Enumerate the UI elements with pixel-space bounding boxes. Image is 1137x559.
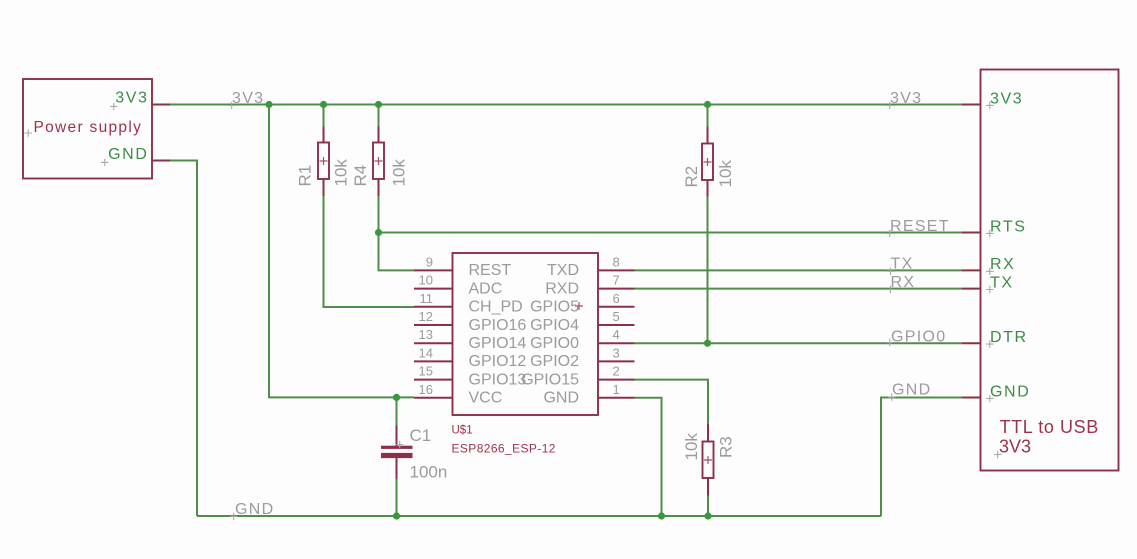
origin cross net RX — [887, 286, 894, 293]
origin cross TTL value — [994, 451, 1001, 458]
svg-text:REST: REST — [469, 262, 512, 279]
svg-text:GPIO0: GPIO0 — [891, 329, 946, 346]
svg-text:11: 11 — [420, 291, 434, 306]
svg-text:13: 13 — [419, 327, 433, 342]
wire TXD to RX — [635, 269, 963, 271]
power supply module SG1 box — [23, 79, 152, 179]
svg-text:GND: GND — [108, 146, 148, 163]
pin RTS of TTL — [962, 232, 981, 234]
resistor R2 — [707, 105, 709, 127]
origin cross net RESET — [886, 230, 893, 237]
origin cross net GND — [230, 513, 237, 520]
svg-text:RXD: RXD — [545, 280, 579, 297]
pin 8 TXD — [598, 269, 635, 271]
pin GND of TTL — [962, 397, 981, 399]
svg-text:DTR: DTR — [990, 329, 1028, 346]
svg-text:VCC: VCC — [469, 390, 503, 407]
wire RXD to TX — [635, 288, 963, 290]
wire GPIO0 to DTR — [635, 342, 963, 344]
svg-text:RX: RX — [990, 256, 1015, 273]
svg-text:GPIO4: GPIO4 — [530, 317, 579, 334]
svg-text:10k: 10k — [682, 433, 701, 461]
pin RX of TTL — [962, 269, 981, 271]
svg-text:3V3: 3V3 — [990, 90, 1023, 107]
pin 16 VCC — [414, 397, 453, 399]
pin 9 REST — [414, 269, 453, 271]
svg-text:3V3: 3V3 — [232, 90, 264, 107]
resistor R4 — [378, 105, 380, 127]
svg-text:TX: TX — [891, 256, 914, 273]
op IC U$1 ESP8266 box — [453, 253, 599, 415]
pin 3 GPIO2 — [598, 360, 635, 362]
svg-text:R2: R2 — [682, 166, 701, 188]
pin 3V3 of TTL — [962, 104, 981, 106]
svg-text:GPIO13: GPIO13 — [469, 371, 527, 388]
pin DTR of TTL — [962, 342, 981, 344]
svg-text:RX: RX — [891, 274, 916, 291]
svg-text:GND: GND — [543, 390, 579, 407]
pin 7 RXD — [598, 288, 635, 290]
wire VCC vertical — [269, 105, 414, 398]
svg-text:GPIO2: GPIO2 — [530, 353, 579, 370]
svg-text:GPIO5: GPIO5 — [530, 299, 579, 316]
TTL to USB module box — [981, 70, 1119, 471]
pin 5 GPIO4 — [598, 324, 635, 326]
origin cross C1 — [396, 441, 403, 448]
node junction GND/pin1 — [658, 512, 665, 519]
svg-text:10k: 10k — [716, 160, 735, 188]
pin 12 GPIO16 — [414, 324, 453, 326]
pin 11 CH_PD — [414, 306, 453, 308]
svg-text:U$1: U$1 — [452, 425, 473, 437]
svg-text:C1: C1 — [410, 426, 432, 445]
pin 1 GND — [598, 397, 635, 399]
svg-text:8: 8 — [613, 254, 620, 269]
svg-text:3V3: 3V3 — [999, 437, 1031, 457]
svg-text:9: 9 — [426, 254, 433, 269]
svg-text:Power supply: Power supply — [34, 119, 143, 136]
wire GND rail — [197, 515, 881, 517]
pin TX of TTL — [962, 288, 981, 290]
svg-text:GPIO14: GPIO14 — [469, 335, 527, 352]
svg-text:4: 4 — [613, 327, 620, 342]
svg-text:TX: TX — [990, 274, 1014, 291]
power supply origin cross — [25, 129, 33, 137]
wire GND from power supply — [170, 161, 197, 517]
wire IC GND pin1 down — [635, 398, 662, 516]
svg-text:7: 7 — [613, 273, 620, 288]
svg-text:TTL to USB: TTL to USB — [1000, 417, 1099, 437]
node junction 3V3/R4 — [375, 101, 382, 108]
svg-text:3V3: 3V3 — [115, 90, 148, 107]
svg-text:100n: 100n — [410, 463, 448, 482]
node junction RESET/R4 — [375, 229, 382, 236]
node junction 3V3/R2 — [704, 101, 711, 108]
svg-text:R4: R4 — [351, 165, 370, 187]
node junction GND/C1 — [393, 512, 400, 519]
node junction VCC/C1 — [393, 394, 400, 401]
IC origin cross — [575, 302, 583, 310]
wire R2 to GPIO0 — [707, 197, 709, 344]
wire R1 to CH_PD — [324, 196, 415, 307]
pin 15 GPIO13 — [414, 379, 453, 381]
pin 14 GPIO12 — [414, 360, 453, 362]
pin 4 GPIO0 — [598, 342, 635, 344]
svg-text:15: 15 — [419, 364, 433, 379]
node junction 3V3/VCC — [265, 101, 272, 108]
wire R4 to RESET net — [379, 196, 415, 270]
node junction 3V3/R1 — [320, 101, 327, 108]
origin cross pin GND — [101, 159, 108, 166]
origin cross net 3V3 — [228, 102, 235, 109]
capacitor C1 — [396, 397, 398, 425]
svg-text:RTS: RTS — [990, 218, 1027, 235]
svg-text:GPIO12: GPIO12 — [469, 353, 527, 370]
svg-text:GND: GND — [892, 382, 931, 399]
svg-text:R3: R3 — [717, 436, 736, 458]
svg-text:10: 10 — [419, 273, 433, 288]
svg-text:TXD: TXD — [547, 262, 579, 279]
node junction GPIO0/R2 — [704, 340, 711, 347]
svg-text:GPIO16: GPIO16 — [469, 317, 527, 334]
wire TTL GND down to rail — [881, 398, 962, 517]
pin 13 GPIO14 — [414, 342, 453, 344]
svg-text:2: 2 — [613, 364, 620, 379]
wire GPIO15 to R3 — [635, 380, 709, 424]
pin 10 ADC — [414, 288, 453, 290]
svg-text:ESP8266_ESP-12: ESP8266_ESP-12 — [452, 441, 556, 455]
svg-text:10k: 10k — [332, 159, 351, 187]
svg-text:GPIO15: GPIO15 — [521, 371, 579, 388]
svg-text:R1: R1 — [296, 165, 315, 187]
svg-text:6: 6 — [613, 291, 620, 306]
origin cross pin 3V3 — [110, 103, 117, 110]
svg-text:ADC: ADC — [469, 280, 503, 297]
wire 3V3 rail — [170, 104, 962, 106]
svg-text:GND: GND — [235, 501, 274, 518]
svg-text:CH_PD: CH_PD — [469, 299, 523, 316]
svg-text:3: 3 — [613, 345, 620, 360]
svg-text:1: 1 — [613, 382, 620, 397]
origin cross net GPIO0 — [886, 339, 893, 346]
resistor R1 — [323, 105, 325, 127]
svg-text:14: 14 — [419, 345, 433, 360]
svg-text:RESET: RESET — [890, 218, 950, 235]
pin 6 GPIO5 — [598, 306, 635, 308]
svg-text:12: 12 — [419, 309, 433, 324]
pin 2 GPIO15 — [598, 379, 635, 381]
resistor R3 — [707, 424, 709, 442]
svg-text:3V3: 3V3 — [890, 90, 922, 107]
origin cross net TX — [887, 268, 894, 275]
svg-text:GND: GND — [990, 383, 1030, 400]
svg-text:10k: 10k — [390, 159, 409, 187]
svg-text:5: 5 — [613, 309, 620, 324]
svg-text:16: 16 — [419, 382, 433, 397]
node junction GND/R3 — [704, 512, 711, 519]
wire RESET — [379, 232, 963, 234]
svg-text:GPIO0: GPIO0 — [530, 335, 579, 352]
